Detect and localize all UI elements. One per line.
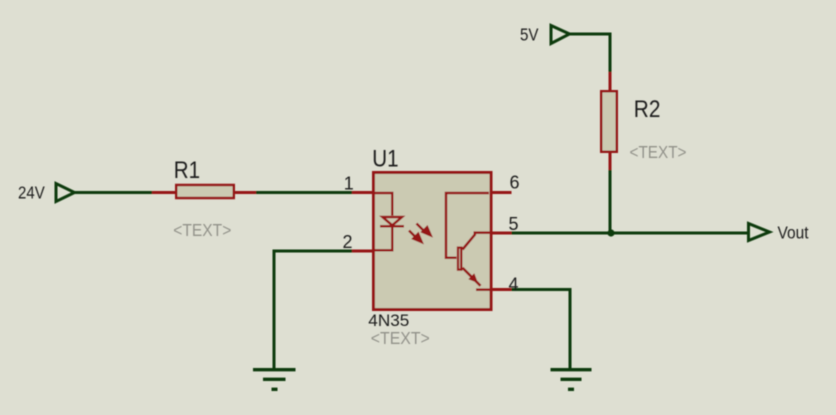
svg-text:R2: R2 xyxy=(634,96,661,123)
svg-text:<TEXT>: <TEXT> xyxy=(630,142,687,162)
svg-text:4: 4 xyxy=(509,275,519,295)
svg-text:2: 2 xyxy=(343,232,353,252)
svg-text:1: 1 xyxy=(344,173,354,193)
svg-text:6: 6 xyxy=(510,173,520,193)
svg-text:<TEXT>: <TEXT> xyxy=(371,328,430,348)
svg-text:Vout: Vout xyxy=(778,223,809,243)
svg-text:4N35: 4N35 xyxy=(368,311,409,330)
svg-text:5V: 5V xyxy=(520,24,539,44)
svg-text:<TEXT>: <TEXT> xyxy=(173,220,231,240)
svg-text:5: 5 xyxy=(509,214,519,234)
svg-text:U1: U1 xyxy=(372,146,398,173)
svg-text:R1: R1 xyxy=(174,157,200,184)
svg-text:24V: 24V xyxy=(18,182,45,202)
